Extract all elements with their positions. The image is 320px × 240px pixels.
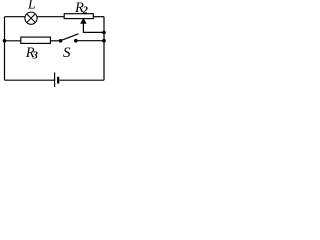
- wire R3 to switch: [50, 40, 60, 42]
- svg-text:2: 2: [82, 5, 89, 16]
- junction dot switch/right wire: [102, 39, 106, 43]
- wire middle-left horizontal: [5, 40, 21, 42]
- wire R2 to right wire: [93, 16, 104, 18]
- battery cell: [55, 73, 59, 88]
- svg-text:3: 3: [32, 50, 38, 61]
- junction dot left wire / middle branch: [3, 39, 7, 43]
- switch S: [59, 34, 79, 43]
- svg-text:S: S: [63, 45, 71, 61]
- wire top-left horizontal: [5, 16, 26, 18]
- lamp L: [25, 12, 37, 24]
- resistor R3: [21, 37, 51, 43]
- junction dot slider/right wire: [102, 31, 106, 35]
- wire bottom-left horizontal: [5, 79, 55, 81]
- slider arrow of R2: [81, 19, 104, 32]
- wire lamp to R2: [37, 16, 64, 18]
- wire bottom-right horizontal: [60, 79, 104, 81]
- svg-text:L: L: [27, 0, 36, 12]
- wire right vertical: [103, 17, 105, 80]
- rheostat R2 body: [64, 14, 93, 19]
- wire left vertical: [4, 17, 6, 80]
- wire switch to right wire: [76, 40, 104, 42]
